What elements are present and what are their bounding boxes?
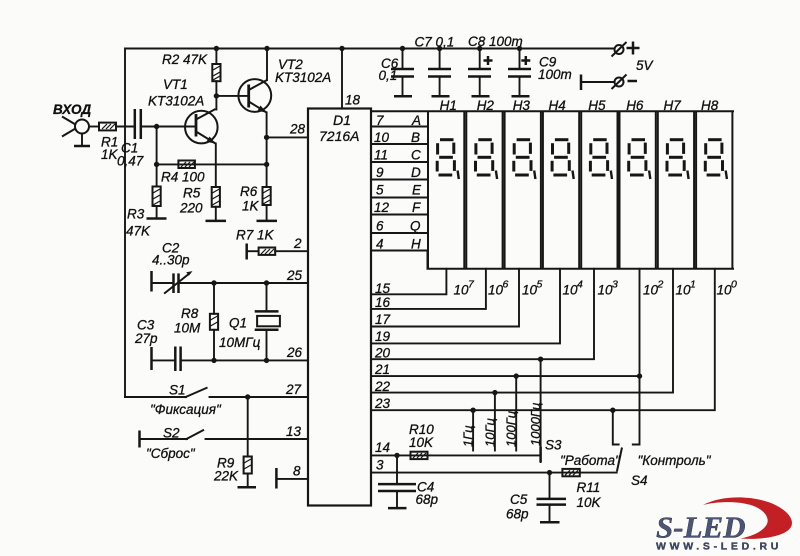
svg-text:27: 27 (285, 382, 302, 397)
svg-text:11: 11 (374, 148, 388, 163)
node 23-1Hz (470, 408, 475, 413)
svg-text:13: 13 (286, 424, 302, 439)
svg-text:C7 0,1: C7 0,1 (415, 35, 455, 50)
wire pin 18 (341, 49, 343, 109)
wire R3 node drop (156, 127, 158, 187)
node 22-10Hz (492, 390, 497, 395)
pin 8 terminal (276, 464, 308, 489)
input jack X1 (62, 117, 90, 147)
svg-text:0: 0 (731, 279, 737, 291)
svg-text:2: 2 (657, 279, 664, 291)
label 10^1 (676, 279, 696, 298)
display H8 digit 8 (705, 140, 727, 179)
display H2 digit 8 (476, 140, 498, 179)
node rail-VT2collector (264, 46, 269, 51)
wire pin 21 to H6 (371, 269, 640, 376)
wire pin 3 (371, 472, 617, 474)
label 10^7 (454, 279, 476, 298)
label 10^0 (717, 279, 738, 298)
pin 9 segment D (376, 165, 421, 180)
svg-text:C: C (411, 148, 421, 163)
terminal minus (581, 75, 637, 91)
svg-text:10M: 10M (174, 321, 201, 336)
svg-text:12: 12 (374, 200, 390, 215)
ground R6 (257, 205, 278, 221)
wire pin 23 to H8 (371, 269, 715, 410)
wire VT1 collector up (215, 96, 217, 110)
svg-text:10МГц: 10МГц (219, 335, 261, 350)
svg-text:1000Гц: 1000Гц (528, 403, 543, 446)
resistor R1 (99, 123, 119, 162)
wire 100Hz drop (515, 376, 517, 450)
wire pin 28 (267, 136, 308, 138)
svg-text:10K: 10K (577, 495, 602, 510)
node rail-pin18 (339, 46, 344, 51)
svg-text:VT1: VT1 (163, 77, 188, 92)
svg-text:H: H (411, 237, 421, 252)
resistor R5 (179, 186, 220, 216)
svg-text:Q: Q (410, 219, 421, 234)
svg-text:"Сброс": "Сброс" (146, 446, 196, 461)
transistor VT2 (238, 57, 331, 113)
node 25-Q1 (264, 280, 269, 285)
node 23-S4 Работа contact (610, 408, 615, 413)
label 10^5 (522, 279, 543, 298)
svg-text:10: 10 (717, 283, 733, 298)
svg-text:19: 19 (375, 329, 391, 344)
svg-text:KT3102A: KT3102A (148, 94, 204, 109)
svg-text:S3: S3 (545, 438, 562, 453)
svg-text:10Гц: 10Гц (482, 418, 497, 447)
svg-text:5: 5 (376, 183, 384, 198)
node 25-R8 (211, 280, 216, 285)
node rail-C8 (477, 46, 482, 51)
display H3 digit 8 (514, 140, 536, 179)
wire pin 17 to H3 (371, 269, 519, 327)
node base-R3 (154, 124, 159, 129)
terminal +5V plus (612, 42, 655, 74)
node 27-R9 (245, 394, 250, 399)
capacitor C3 (134, 318, 181, 372)
svg-text:4: 4 (577, 279, 583, 291)
wire 1000Hz drop closed through S3 (540, 359, 542, 462)
svg-text:S2: S2 (163, 426, 180, 441)
resistor R11 (562, 469, 601, 510)
svg-text:22: 22 (374, 379, 391, 394)
resistor R4 (161, 161, 205, 185)
svg-text:F: F (412, 200, 421, 215)
svg-text:26: 26 (286, 345, 303, 360)
svg-text:4..30p: 4..30p (152, 253, 190, 268)
display H labels (440, 98, 719, 113)
wire S4 Контроль contact (633, 376, 640, 444)
wire pin 16 to H2 (371, 269, 486, 309)
svg-text:4: 4 (376, 237, 384, 252)
node R3-R4 (154, 162, 159, 167)
svg-text:10: 10 (676, 283, 692, 298)
svg-text:3: 3 (612, 279, 618, 291)
node 20-1000Hz (538, 357, 543, 362)
node rail-C7 (437, 46, 442, 51)
switch S2 (140, 426, 205, 448)
svg-text:1K: 1K (242, 199, 260, 214)
svg-text:22K: 22K (213, 469, 239, 484)
resistor R6 (240, 184, 271, 214)
node 21-100Hz (514, 373, 519, 378)
resistor R9 (213, 397, 252, 484)
svg-text:5V: 5V (636, 58, 655, 73)
crystal Q1 (219, 283, 280, 360)
svg-text:A: A (411, 113, 421, 128)
svg-text:1: 1 (690, 279, 696, 291)
pin 6 segment Q (376, 219, 421, 234)
svg-text:S1: S1 (169, 383, 186, 398)
resistor R10 (409, 422, 434, 459)
svg-text:1Гц: 1Гц (461, 425, 476, 447)
svg-text:ВХОД: ВХОД (53, 102, 91, 117)
svg-text:S-LED: S-LED (656, 510, 746, 545)
svg-text:R5: R5 (183, 186, 201, 201)
pin 11 segment C (374, 148, 421, 163)
wire C1 to VT1 base (141, 126, 196, 128)
resistor R2 (162, 49, 221, 96)
svg-text:R11: R11 (577, 480, 601, 495)
svg-text:100m: 100m (538, 67, 572, 82)
display H6 digit 8 (629, 140, 651, 179)
svg-text:16: 16 (375, 295, 391, 310)
capacitor C7 (415, 35, 455, 97)
display block bottom line with ladder corner (371, 251, 734, 269)
node rail-C9 (517, 46, 522, 51)
svg-text:D: D (411, 165, 421, 180)
wire R1 to C1 (116, 126, 135, 128)
capacitor C4 (378, 455, 439, 508)
wire pin 19 to H4 (371, 269, 560, 344)
svg-text:20: 20 (374, 346, 391, 361)
wire pin 27 (210, 396, 309, 398)
svg-text:23: 23 (374, 396, 391, 411)
svg-text:14: 14 (375, 440, 390, 455)
wire top +5V power rail with left drop (125, 49, 615, 398)
svg-text:10: 10 (454, 283, 470, 298)
capacitor C9 polar (508, 49, 572, 97)
svg-text:C5: C5 (510, 492, 528, 507)
node 21-S4 Контроль contact (637, 373, 642, 378)
capacitor C8 polar (468, 34, 523, 96)
wire pin 20 to H5 (371, 269, 594, 359)
ground R5 (206, 207, 227, 221)
capacitor C6 (379, 49, 415, 97)
svg-text:WWW.S-LED.RU: WWW.S-LED.RU (656, 541, 782, 553)
svg-text:10K: 10K (409, 435, 434, 450)
svg-text:Q1: Q1 (229, 316, 247, 331)
pin 5 segment E (376, 183, 422, 198)
capacitor C1 (117, 109, 144, 169)
node VT2 emitter pin28 (264, 135, 269, 140)
display H5 digit 8 (590, 140, 612, 179)
svg-text:3: 3 (376, 458, 384, 473)
svg-text:10: 10 (643, 283, 659, 298)
svg-text:25: 25 (286, 268, 303, 283)
wire 1Hz drop (472, 410, 474, 450)
node 3-C5 (547, 470, 552, 475)
label 10^3 (598, 279, 619, 298)
label 10^4 (563, 279, 584, 298)
svg-text:R3: R3 (127, 207, 145, 222)
pin 4 segment H (376, 237, 421, 252)
wire VT1 emitter down to R5 (215, 144, 217, 188)
wire S4 Работа contact (613, 410, 619, 444)
svg-text:7: 7 (376, 113, 384, 128)
wire 10Hz drop (494, 393, 496, 451)
svg-text:6: 6 (376, 219, 384, 234)
svg-text:2: 2 (293, 236, 302, 251)
display H1 digit 8 (437, 140, 459, 179)
node 26-Q1 (264, 358, 269, 363)
resistor R3 (126, 187, 161, 239)
node 14-C4 (394, 453, 399, 458)
svg-text:8: 8 (293, 464, 301, 479)
svg-text:9: 9 (376, 165, 384, 180)
display box edges H1-H8 (428, 111, 732, 268)
svg-text:10: 10 (522, 283, 538, 298)
wire pin 13 (206, 438, 309, 440)
display block top line (371, 110, 734, 112)
display H4 digit 8 (552, 140, 574, 179)
wire jack to R1 (89, 126, 99, 128)
capacitor C5 (506, 473, 566, 523)
node R4-VT2 emitter (264, 162, 269, 167)
switch S1 (125, 383, 208, 398)
svg-text:17: 17 (375, 312, 391, 327)
svg-text:28: 28 (289, 122, 306, 137)
svg-text:B: B (411, 130, 420, 145)
pin 7 segment A (376, 113, 421, 128)
svg-text:D1: D1 (333, 112, 351, 128)
wire pin 26 (181, 359, 308, 361)
label 10^6 (488, 279, 509, 298)
resistor R8 (174, 283, 218, 360)
svg-text:0,47: 0,47 (117, 154, 144, 169)
ground R9 (238, 474, 257, 488)
node rail-R2 (214, 46, 219, 51)
wire pin 22 to H7 (371, 269, 673, 393)
switch S4 lever (617, 448, 622, 472)
svg-text:E: E (412, 183, 422, 198)
label 10^2 (643, 279, 664, 298)
ground R3 (147, 206, 167, 219)
svg-text:5: 5 (537, 279, 543, 291)
wire VT2 collector up to rail (266, 49, 268, 81)
svg-text:220: 220 (179, 201, 203, 216)
svg-text:R4 100: R4 100 (161, 170, 205, 185)
node 26-R8 (211, 358, 216, 363)
capacitor C2 variable (152, 241, 193, 294)
svg-text:10: 10 (598, 283, 614, 298)
wire pin 15 to H1 (371, 269, 446, 295)
svg-text:R7 1K: R7 1K (236, 228, 275, 243)
resistor R7 with terminal and pin 2 wire (236, 228, 308, 260)
wire VT1 collector to VT2 base (216, 95, 248, 97)
svg-text:"Контроль": "Контроль" (638, 453, 712, 468)
svg-text:S4: S4 (631, 473, 648, 488)
svg-text:68p: 68p (416, 492, 439, 507)
display H7 digit 8 (667, 140, 689, 179)
node VT1 collector (214, 93, 219, 98)
svg-text:R2 47K: R2 47K (162, 52, 208, 67)
svg-text:10: 10 (374, 130, 390, 145)
svg-text:10: 10 (563, 283, 579, 298)
svg-text:27p: 27p (134, 331, 158, 346)
pin 10 segment B (374, 130, 420, 145)
node rail-C6 (400, 46, 405, 51)
svg-text:1K: 1K (101, 147, 119, 162)
svg-text:R6: R6 (240, 184, 258, 199)
svg-text:21: 21 (374, 362, 390, 377)
pin 12 segment F (374, 200, 421, 215)
svg-text:"Работа": "Работа" (560, 453, 621, 468)
svg-text:15: 15 (375, 281, 391, 296)
svg-text:KT3102A: KT3102A (275, 70, 331, 85)
svg-text:C8 100m: C8 100m (468, 34, 523, 49)
svg-text:47K: 47K (126, 224, 151, 239)
svg-text:7216A: 7216A (319, 128, 359, 144)
svg-text:6: 6 (503, 279, 509, 291)
IC D1 7216A (308, 109, 371, 506)
transistor VT1 (148, 77, 218, 144)
wire R4 row (157, 163, 267, 165)
logo S-LED (656, 497, 792, 552)
svg-text:100Гц: 100Гц (504, 411, 519, 447)
segment ladder lines A-H (371, 127, 428, 234)
svg-text:68p: 68p (506, 507, 529, 522)
svg-text:18: 18 (345, 93, 361, 108)
wire pin 14 (371, 454, 540, 456)
svg-text:R8: R8 (181, 306, 199, 321)
svg-text:"Фиксация": "Фиксация" (150, 402, 222, 417)
svg-text:10: 10 (488, 283, 504, 298)
wire VT2 emitter down (266, 113, 268, 188)
wire pin 25 (179, 282, 309, 284)
